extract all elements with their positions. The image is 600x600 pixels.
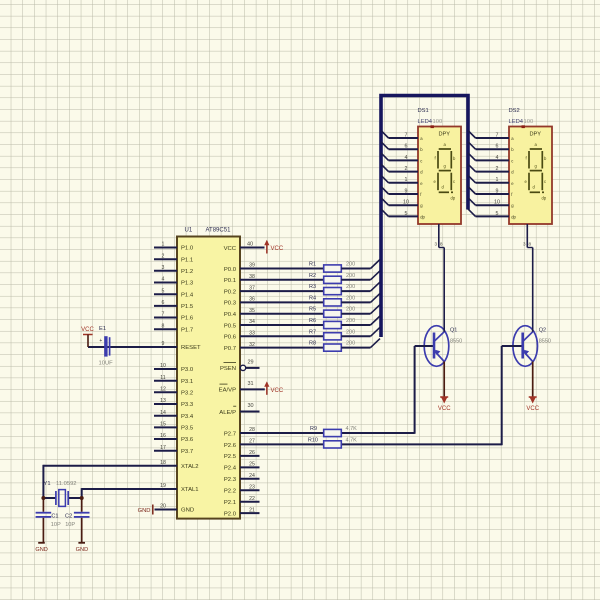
svg-text:XTAL1: XTAL1 bbox=[181, 487, 199, 493]
svg-text:1: 1 bbox=[496, 177, 499, 183]
power GND pin20 bbox=[138, 505, 177, 515]
svg-text:4: 4 bbox=[162, 277, 165, 283]
svg-text:31: 31 bbox=[247, 381, 253, 387]
svg-text:12: 12 bbox=[160, 387, 166, 393]
svg-text:1: 1 bbox=[405, 177, 408, 183]
pin 1 seg e bbox=[381, 175, 423, 186]
ground C2 bbox=[76, 543, 88, 553]
svg-text:P2.3: P2.3 bbox=[224, 477, 237, 483]
svg-text:E1: E1 bbox=[99, 326, 106, 332]
svg-text:VCC: VCC bbox=[438, 406, 451, 412]
pin 28 P2.7 bbox=[224, 427, 415, 437]
svg-text:P3.4: P3.4 bbox=[181, 414, 194, 420]
pin 36 P0.3 bbox=[224, 297, 324, 307]
svg-text:P2.7: P2.7 bbox=[224, 431, 236, 437]
svg-text:P3.2: P3.2 bbox=[181, 391, 193, 397]
svg-text:24: 24 bbox=[249, 473, 255, 479]
svg-text:Q1: Q1 bbox=[450, 328, 457, 334]
pin 14 P3.4 bbox=[154, 410, 194, 420]
resistor R4 200 bbox=[309, 295, 355, 306]
svg-text:37: 37 bbox=[249, 285, 255, 291]
svg-text:U1: U1 bbox=[185, 228, 193, 234]
pin 23 P2.2 bbox=[224, 484, 260, 494]
display DS1 bottom pins 3,8 bbox=[434, 224, 444, 248]
svg-text:23: 23 bbox=[249, 484, 255, 490]
pin 5 seg dp bbox=[468, 209, 517, 220]
svg-text:32: 32 bbox=[249, 342, 255, 348]
svg-text:5: 5 bbox=[496, 211, 499, 217]
svg-text:P1.3: P1.3 bbox=[181, 281, 194, 287]
svg-text:VCC: VCC bbox=[81, 327, 94, 333]
resistor R6 200 bbox=[309, 318, 355, 329]
svg-text:14: 14 bbox=[160, 410, 166, 416]
pin 30 ALE/P bbox=[219, 403, 259, 416]
capacitor C2 10P bbox=[65, 498, 89, 542]
svg-text:6: 6 bbox=[405, 144, 408, 150]
svg-text:LED4: LED4 bbox=[418, 119, 433, 125]
7seg digit glyph bbox=[438, 149, 453, 192]
svg-text:29: 29 bbox=[247, 359, 253, 365]
wire resistor to bus bbox=[341, 282, 380, 291]
pin 18 XTAL2 bbox=[160, 460, 198, 470]
wire collector to display bbox=[532, 248, 534, 332]
svg-text:GND: GND bbox=[35, 547, 47, 553]
pin 7 P1.6 bbox=[154, 312, 194, 322]
svg-text:R2: R2 bbox=[309, 273, 316, 279]
svg-text:C2: C2 bbox=[65, 513, 72, 519]
svg-text:7: 7 bbox=[405, 132, 408, 138]
resistor R8 200 bbox=[309, 341, 355, 352]
wire emitter to VCC bbox=[532, 362, 534, 397]
wire resistor to bus bbox=[341, 260, 380, 269]
svg-text:7: 7 bbox=[162, 312, 165, 318]
pin 26 P2.5 bbox=[224, 450, 260, 460]
pin 11 P3.1 bbox=[154, 375, 193, 385]
svg-text:2: 2 bbox=[162, 253, 165, 259]
svg-text:R3: R3 bbox=[309, 284, 316, 290]
pin 24 P2.3 bbox=[224, 473, 260, 483]
svg-text:10P: 10P bbox=[51, 522, 61, 528]
pin 4 P1.3 bbox=[154, 277, 194, 287]
pin 10 seg g bbox=[468, 198, 514, 209]
svg-text:LED4: LED4 bbox=[509, 119, 524, 125]
svg-text:P2.4: P2.4 bbox=[224, 466, 237, 472]
svg-text:dp: dp bbox=[511, 214, 516, 219]
pin 3 P1.2 bbox=[154, 265, 193, 275]
svg-text:ALE/P: ALE/P bbox=[219, 410, 236, 416]
pin 12 P3.2 bbox=[154, 387, 193, 397]
svg-text:200: 200 bbox=[346, 262, 355, 268]
pin 2 seg d bbox=[381, 164, 423, 175]
svg-text:100: 100 bbox=[433, 119, 443, 125]
svg-text:25: 25 bbox=[249, 462, 255, 468]
svg-text:VCC: VCC bbox=[271, 246, 284, 252]
resistor R2 200 bbox=[309, 273, 355, 284]
pin 6 seg b bbox=[381, 142, 423, 153]
display DS2 bottom pins 3,8 bbox=[523, 224, 533, 248]
svg-text:P1.1: P1.1 bbox=[181, 257, 193, 263]
pin 37 P0.2 bbox=[224, 285, 324, 295]
svg-text:EA/VP: EA/VP bbox=[219, 388, 236, 394]
svg-text:PSEN: PSEN bbox=[220, 366, 236, 372]
pin 7 seg a bbox=[468, 131, 514, 142]
pin 5 seg dp bbox=[381, 209, 426, 220]
svg-text:R6: R6 bbox=[309, 318, 316, 324]
wire XTAL1 net bbox=[82, 488, 177, 498]
wire resistor to bus bbox=[341, 305, 380, 314]
svg-text:9: 9 bbox=[405, 188, 408, 194]
svg-text:P0.1: P0.1 bbox=[224, 278, 236, 284]
svg-text:R1: R1 bbox=[309, 262, 316, 268]
op IC U1 AT89C51 body bbox=[177, 237, 240, 519]
svg-text:P0.6: P0.6 bbox=[224, 335, 237, 341]
svg-text:P1.4: P1.4 bbox=[181, 292, 194, 298]
wire R10 row to Q2 base bbox=[501, 346, 503, 445]
svg-text:GND: GND bbox=[138, 508, 151, 514]
wire R9 row to Q1 base bbox=[414, 346, 416, 434]
svg-text:5: 5 bbox=[405, 211, 408, 217]
svg-text:10: 10 bbox=[160, 363, 166, 369]
svg-text:DPY: DPY bbox=[439, 132, 451, 138]
wire resistor to bus bbox=[341, 293, 380, 302]
svg-text:P1.5: P1.5 bbox=[181, 304, 194, 310]
svg-text:GND: GND bbox=[181, 508, 194, 514]
svg-text:AT89C51: AT89C51 bbox=[206, 228, 232, 234]
svg-text:P0.7: P0.7 bbox=[224, 346, 236, 352]
svg-text:30: 30 bbox=[247, 403, 253, 409]
pin 5 P1.4 bbox=[154, 288, 194, 298]
svg-text:P3.5: P3.5 bbox=[181, 426, 194, 432]
svg-text:P2.0: P2.0 bbox=[224, 511, 237, 517]
wire resistor to bus bbox=[341, 327, 380, 336]
svg-text:36: 36 bbox=[249, 297, 255, 303]
svg-text:R4: R4 bbox=[309, 295, 316, 301]
svg-text:c: c bbox=[420, 158, 422, 163]
svg-text:R7: R7 bbox=[309, 329, 316, 335]
svg-text:22: 22 bbox=[249, 496, 255, 502]
svg-text:200: 200 bbox=[346, 307, 355, 313]
svg-text:26: 26 bbox=[249, 450, 255, 456]
svg-text:P1.0: P1.0 bbox=[181, 246, 194, 252]
pin 39 P0.0 bbox=[224, 263, 324, 273]
svg-text:c: c bbox=[453, 179, 455, 184]
svg-text:4: 4 bbox=[496, 155, 499, 161]
transistor Q2 8550 bbox=[502, 326, 551, 367]
resistor R5 200 bbox=[309, 307, 355, 318]
svg-text:33: 33 bbox=[249, 331, 255, 337]
crystal Y1 11.0592 bbox=[43, 481, 81, 506]
power VCC reset bbox=[81, 327, 94, 347]
pin 27 P2.6 bbox=[224, 439, 502, 449]
svg-text:5: 5 bbox=[162, 288, 165, 294]
pin 17 P3.7 bbox=[154, 445, 193, 455]
svg-text:P1.7: P1.7 bbox=[181, 327, 193, 333]
svg-text:17: 17 bbox=[160, 445, 166, 451]
svg-text:VCC: VCC bbox=[271, 388, 284, 394]
pin 4 seg c bbox=[468, 153, 513, 164]
svg-text:7: 7 bbox=[496, 132, 499, 138]
svg-text:13: 13 bbox=[160, 398, 166, 404]
pin 21 P2.0 bbox=[224, 507, 260, 517]
resistor R3 200 bbox=[309, 284, 355, 295]
ground C1 bbox=[35, 543, 47, 553]
svg-text:P0.2: P0.2 bbox=[224, 289, 236, 295]
svg-text:P1.2: P1.2 bbox=[181, 269, 193, 275]
svg-text:10: 10 bbox=[494, 200, 500, 206]
pin 31 EA/VP bbox=[219, 381, 265, 394]
svg-text:P0.4: P0.4 bbox=[224, 312, 237, 318]
svg-text:11.0592: 11.0592 bbox=[56, 481, 77, 487]
svg-text:VCC: VCC bbox=[526, 406, 539, 412]
pin 15 P3.5 bbox=[154, 422, 194, 432]
pin 25 P2.4 bbox=[224, 462, 260, 472]
power VCC at pin40 bbox=[264, 240, 284, 254]
svg-text:P0.3: P0.3 bbox=[224, 301, 237, 307]
pin 22 P2.1 bbox=[224, 496, 260, 506]
svg-text:P2.6: P2.6 bbox=[224, 443, 237, 449]
svg-text:P0.5: P0.5 bbox=[224, 323, 237, 329]
wire collector to display bbox=[443, 248, 445, 332]
capacitor E1 10UF bbox=[99, 326, 114, 366]
svg-text:P3.3: P3.3 bbox=[181, 402, 194, 408]
svg-text:Q2: Q2 bbox=[539, 328, 546, 334]
pin 6 P1.5 bbox=[154, 300, 194, 310]
resistor R9 4.7K bbox=[310, 426, 357, 437]
svg-text:GND: GND bbox=[76, 547, 88, 553]
pin 9 seg f bbox=[381, 187, 422, 198]
pin 32 P0.7 bbox=[224, 342, 324, 352]
svg-text:8550: 8550 bbox=[539, 339, 551, 345]
svg-text:+: + bbox=[99, 338, 102, 344]
svg-text:15: 15 bbox=[160, 422, 166, 428]
svg-text:c: c bbox=[511, 158, 513, 163]
svg-text:200: 200 bbox=[346, 329, 355, 335]
svg-text:6: 6 bbox=[162, 300, 165, 306]
wire emitter to VCC bbox=[443, 362, 445, 397]
power VCC Q2 bbox=[526, 397, 539, 412]
svg-text:R5: R5 bbox=[309, 307, 316, 313]
svg-text:6: 6 bbox=[496, 144, 499, 150]
pin 16 P3.6 bbox=[154, 433, 194, 443]
pin 2 P1.1 bbox=[154, 253, 193, 263]
pin 19 XTAL1 bbox=[160, 483, 198, 493]
svg-text:VCC: VCC bbox=[224, 246, 237, 252]
svg-text:P2.1: P2.1 bbox=[224, 500, 236, 506]
junction node XTAL2 bbox=[41, 496, 45, 500]
svg-text:8: 8 bbox=[162, 323, 165, 329]
power VCC at pin31 bbox=[264, 381, 284, 394]
svg-text:dp: dp bbox=[420, 214, 425, 219]
svg-text:8550: 8550 bbox=[450, 339, 462, 345]
svg-text:DS1: DS1 bbox=[418, 108, 429, 114]
wire XTAL2 net bbox=[43, 465, 177, 498]
pin 10 P3.0 bbox=[154, 363, 194, 373]
wire reset to pin9 bbox=[88, 346, 177, 348]
svg-text:200: 200 bbox=[346, 341, 355, 347]
pin 4 seg c bbox=[381, 153, 422, 164]
svg-text:3: 3 bbox=[162, 265, 165, 271]
pin 35 P0.4 bbox=[224, 308, 324, 318]
transistor Q1 8550 bbox=[415, 326, 463, 367]
svg-text:2: 2 bbox=[496, 166, 499, 172]
pin 6 seg b bbox=[468, 142, 514, 153]
svg-text:P1.6: P1.6 bbox=[181, 316, 194, 322]
junction node XTAL1 bbox=[80, 496, 84, 500]
svg-text:P3.6: P3.6 bbox=[181, 437, 194, 443]
svg-text:38: 38 bbox=[249, 274, 255, 280]
pin 33 P0.6 bbox=[224, 331, 324, 341]
svg-text:28: 28 bbox=[249, 427, 255, 433]
svg-text:Y1: Y1 bbox=[44, 481, 51, 487]
wire resistor to bus bbox=[341, 271, 380, 280]
svg-text:34: 34 bbox=[249, 319, 255, 325]
svg-text:10P: 10P bbox=[65, 522, 75, 528]
svg-text:9: 9 bbox=[496, 188, 499, 194]
svg-text:P0.0: P0.0 bbox=[224, 267, 237, 273]
pin 9 RESET bbox=[162, 341, 201, 351]
svg-text:200: 200 bbox=[346, 273, 355, 279]
pin 34 P0.5 bbox=[224, 319, 324, 329]
svg-text:DS2: DS2 bbox=[509, 108, 520, 114]
svg-text:R10: R10 bbox=[308, 437, 318, 443]
svg-text:2: 2 bbox=[405, 166, 408, 172]
pin 13 P3.3 bbox=[154, 398, 194, 408]
power VCC Q1 bbox=[438, 397, 451, 412]
7seg display DS2 LED4_100 body bbox=[509, 127, 552, 225]
svg-text:XTAL2: XTAL2 bbox=[181, 464, 199, 470]
pin 40 VCC bbox=[224, 242, 265, 252]
svg-text:P3.7: P3.7 bbox=[181, 449, 193, 455]
pin 8 P1.7 bbox=[154, 323, 193, 333]
svg-text:1: 1 bbox=[162, 242, 165, 248]
7seg digit glyph bbox=[529, 149, 544, 192]
svg-text:39: 39 bbox=[249, 263, 255, 269]
pin 7 seg a bbox=[381, 131, 423, 142]
7seg display DS1 LED4_100 body bbox=[418, 127, 461, 225]
pin 20 GND bbox=[160, 504, 194, 514]
svg-text:dp: dp bbox=[542, 196, 547, 201]
resistor R10 4.7K bbox=[308, 437, 357, 448]
svg-text:P2.5: P2.5 bbox=[224, 454, 237, 460]
capacitor C1 10P bbox=[36, 498, 61, 542]
resistor R7 200 bbox=[309, 329, 355, 340]
svg-text:P3.1: P3.1 bbox=[181, 379, 193, 385]
svg-text:200: 200 bbox=[346, 284, 355, 290]
svg-text:40: 40 bbox=[247, 242, 253, 248]
pin 2 seg d bbox=[468, 164, 514, 175]
svg-text:4.7K: 4.7K bbox=[346, 437, 358, 443]
svg-text:10: 10 bbox=[403, 200, 409, 206]
svg-text:11: 11 bbox=[160, 375, 165, 381]
svg-text:dp: dp bbox=[451, 196, 456, 201]
resistor R1 200 bbox=[309, 262, 355, 273]
svg-text:35: 35 bbox=[249, 308, 255, 314]
svg-text:200: 200 bbox=[346, 295, 355, 301]
pin 9 seg f bbox=[468, 187, 513, 198]
pin 38 P0.1 bbox=[224, 274, 324, 284]
pin 10 seg g bbox=[381, 198, 423, 209]
pin 1 P1.0 bbox=[154, 242, 194, 252]
wire resistor to bus bbox=[341, 316, 380, 325]
svg-text:RESET: RESET bbox=[181, 345, 201, 351]
svg-text:10UF: 10UF bbox=[99, 361, 114, 367]
svg-text:27: 27 bbox=[249, 439, 255, 445]
svg-text:4.7K: 4.7K bbox=[346, 426, 358, 432]
svg-text:100: 100 bbox=[524, 119, 534, 125]
pin 29 PSEN bbox=[220, 359, 260, 372]
svg-text:c: c bbox=[544, 179, 546, 184]
svg-text:C1: C1 bbox=[51, 513, 58, 519]
svg-text:200: 200 bbox=[346, 318, 355, 324]
svg-text:P3.0: P3.0 bbox=[181, 367, 194, 373]
svg-text:R9: R9 bbox=[310, 426, 317, 432]
bus main vertical+top bbox=[381, 96, 468, 338]
wire resistor to bus bbox=[341, 339, 380, 348]
svg-text:16: 16 bbox=[160, 433, 166, 439]
svg-text:21: 21 bbox=[249, 507, 255, 513]
svg-text:4: 4 bbox=[405, 155, 408, 161]
svg-text:DPY: DPY bbox=[530, 132, 542, 138]
svg-text:R8: R8 bbox=[309, 341, 316, 347]
pin 1 seg e bbox=[468, 175, 514, 186]
svg-text:P2.2: P2.2 bbox=[224, 489, 236, 495]
